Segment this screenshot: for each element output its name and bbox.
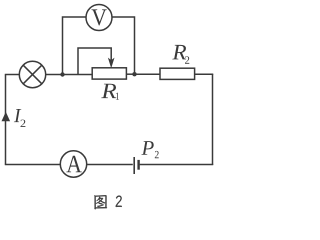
wiper arrow head (108, 58, 115, 69)
wire bottom rail middle (87, 164, 133, 166)
current arrow I2 (2, 112, 11, 122)
wire rail junction2 to R2 (135, 73, 161, 75)
label R2 (172, 45, 189, 64)
label P2 (141, 141, 158, 158)
label I2 (14, 109, 26, 127)
voltmeter letter V (92, 9, 107, 25)
wire lamp left lead (5, 74, 20, 76)
wire R1 right lead (126, 73, 134, 75)
wire voltmeter left branch (63, 17, 87, 75)
wire right rail (212, 74, 214, 165)
ammeter A circle (60, 151, 86, 177)
wire wiper riser and top (78, 48, 111, 75)
lamp (19, 61, 45, 87)
label R1 (101, 84, 119, 100)
battery P2 (134, 157, 138, 174)
rheostat R1 (92, 68, 126, 79)
ammeter letter A (66, 156, 81, 173)
resistor R2 (160, 68, 195, 79)
wire rail junction1 to R1 (63, 74, 93, 76)
caption 图 (94, 195, 107, 209)
wire left rail (5, 75, 7, 165)
caption 2 (116, 196, 122, 207)
wire bottom rail right (140, 164, 214, 166)
voltmeter V circle (86, 5, 112, 31)
node junction dot 2 (132, 72, 136, 76)
node junction dot 1 (60, 72, 64, 76)
wire bottom rail left (5, 164, 61, 166)
wire lamp right lead (46, 74, 63, 76)
wire voltmeter right branch (112, 17, 135, 74)
wire R2 right lead (195, 73, 214, 75)
